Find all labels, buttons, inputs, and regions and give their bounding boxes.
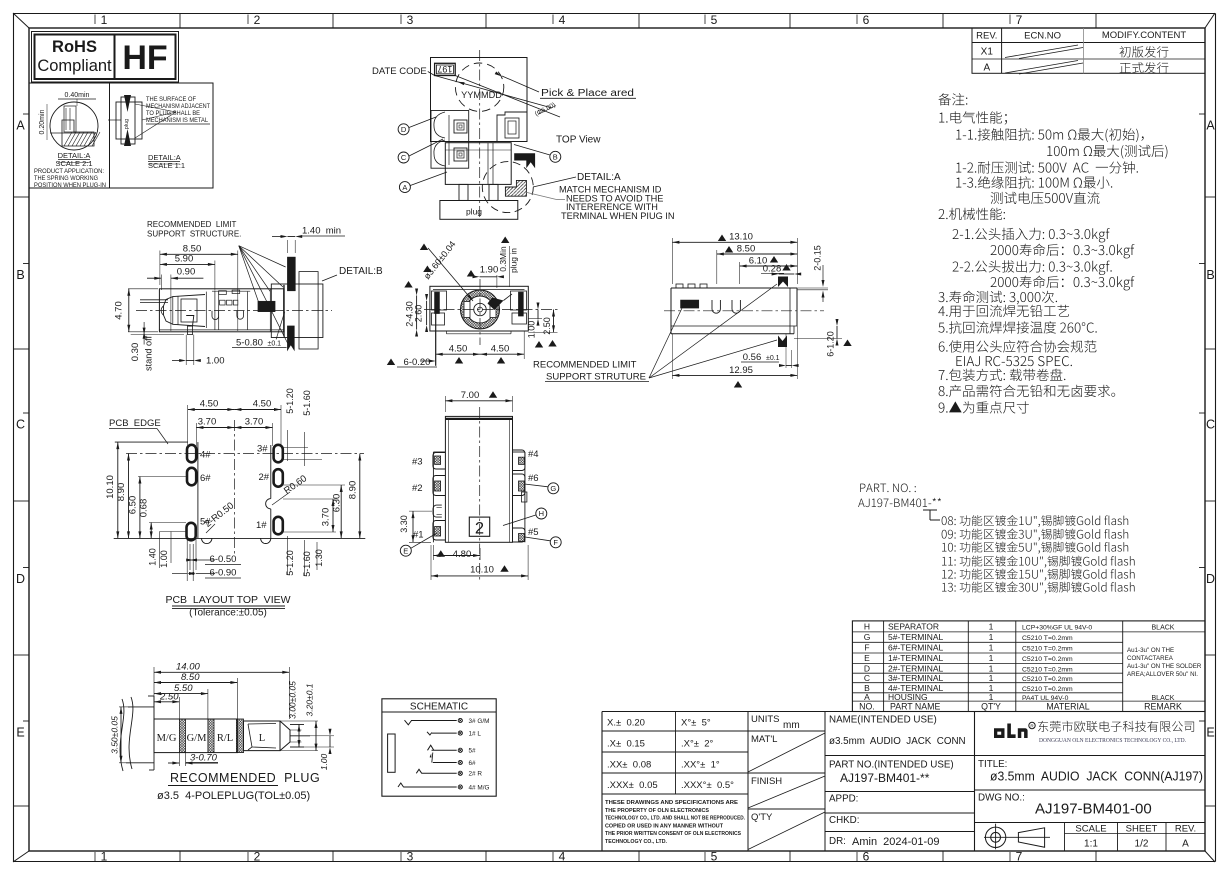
v2 barrel circle hatched ring bbox=[461, 290, 500, 329]
note line 测试电压500V直流 bbox=[991, 192, 1100, 204]
note line 备注: bbox=[939, 93, 968, 105]
svg-text:#3: #3 bbox=[412, 457, 423, 468]
bv body bbox=[445, 416, 512, 542]
svg-text:LCP+30%GF UL 94V-0: LCP+30%GF UL 94V-0 bbox=[1022, 624, 1092, 631]
svg-text:THESE DRAWINGS AND SPECIFICATI: THESE DRAWINGS AND SPECIFICATIONS ARE bbox=[605, 800, 738, 806]
v3 dim 0.28 bbox=[779, 273, 795, 275]
v2 dim 2-4.30 bbox=[435, 310, 437, 366]
svg-text:5.90: 5.90 bbox=[175, 254, 194, 265]
pcb dim verticals left bbox=[117, 442, 119, 538]
grid column ticks and labels bbox=[179, 13, 181, 28]
detail circle left bbox=[50, 102, 98, 150]
dim 3.50 vertical bbox=[120, 707, 122, 763]
svg-text:6#: 6# bbox=[469, 760, 477, 767]
svg-text:.X± 0.15: .X± 0.15 bbox=[607, 739, 645, 750]
svg-text:APPD:: APPD: bbox=[829, 794, 858, 805]
svg-text:4.50: 4.50 bbox=[200, 399, 219, 410]
part option 11: bbox=[942, 556, 1135, 568]
svg-text:1: 1 bbox=[989, 663, 994, 673]
bv circled letters bbox=[548, 483, 559, 494]
schematic wire 4# M/G bbox=[403, 786, 456, 788]
pcb dim 6-0.50 6-0.90 bbox=[186, 538, 188, 581]
v3 centerline bbox=[664, 310, 824, 312]
svg-text:SCALE 2:1: SCALE 2:1 bbox=[55, 159, 92, 168]
svg-text:4.50: 4.50 bbox=[449, 344, 468, 355]
detail A dashed circle bbox=[482, 162, 533, 213]
svg-text:THE SPRING WORKING: THE SPRING WORKING bbox=[34, 175, 98, 182]
scale sheet rev cells bbox=[1064, 823, 1066, 852]
v1 nozzle bbox=[164, 295, 206, 327]
svg-text:D: D bbox=[401, 125, 407, 134]
dims right side 3.00 3.20 bbox=[290, 729, 302, 731]
legs bbox=[459, 184, 468, 200]
v3 hooks bbox=[712, 300, 720, 313]
svg-text:6: 6 bbox=[863, 850, 870, 864]
svg-text:PART NAME: PART NAME bbox=[890, 702, 940, 712]
v1 dim 1.00 bbox=[185, 335, 187, 365]
svg-text:A: A bbox=[864, 692, 870, 702]
svg-text:G: G bbox=[550, 484, 556, 493]
svg-text:ø3.5mm AUDIO JACK CONN(AJ19: ø3.5mm AUDIO JACK CONN(AJ197) bbox=[990, 769, 1203, 784]
svg-text:Au1-3u" ON THE SOLDER: Au1-3u" ON THE SOLDER bbox=[1127, 663, 1202, 670]
svg-text:PART NO.(INTENDED USE): PART NO.(INTENDED USE) bbox=[829, 760, 954, 771]
v1 right panel bbox=[271, 284, 323, 338]
projection symbol bbox=[985, 827, 1005, 847]
svg-text:5-0.80: 5-0.80 bbox=[236, 338, 263, 349]
svg-text:SCALE: SCALE bbox=[1075, 824, 1106, 835]
svg-text:TERMINAL WHEN PIUG IN: TERMINAL WHEN PIUG IN bbox=[561, 211, 675, 221]
svg-text:DONGGUAN OLN ELECTRONICS TECHN: DONGGUAN OLN ELECTRONICS TECHNOLOGY CO.,… bbox=[1039, 737, 1186, 744]
v1 wire stubs bbox=[140, 299, 168, 301]
svg-text:HOUSING: HOUSING bbox=[888, 692, 928, 702]
v2 black pointer bbox=[488, 298, 504, 311]
svg-text:NO.: NO. bbox=[859, 702, 875, 712]
schematic wire 2# R bbox=[422, 772, 457, 774]
bv left side plate bbox=[432, 452, 434, 542]
svg-text:6#: 6# bbox=[200, 473, 211, 484]
svg-text:3.70: 3.70 bbox=[245, 417, 264, 428]
svg-text:CHKD:: CHKD: bbox=[829, 815, 859, 826]
svg-text:3.70: 3.70 bbox=[321, 508, 332, 527]
svg-text:C: C bbox=[401, 153, 407, 162]
svg-text:THE SURFACE OF: THE SURFACE OF bbox=[146, 96, 196, 103]
svg-text:5-1.60: 5-1.60 bbox=[302, 551, 312, 577]
svg-text:4: 4 bbox=[559, 850, 566, 864]
schematic wire 5# bbox=[432, 749, 457, 751]
plug dims bbox=[153, 667, 155, 719]
svg-text:SHEET: SHEET bbox=[1126, 824, 1158, 835]
svg-text:Compliant: Compliant bbox=[37, 57, 112, 75]
svg-text:0.40min: 0.40min bbox=[65, 92, 90, 99]
svg-text:E: E bbox=[1206, 726, 1214, 740]
svg-text:TO PLUG SHALL BE: TO PLUG SHALL BE bbox=[146, 110, 200, 117]
svg-text:4# M/G: 4# M/G bbox=[469, 784, 490, 791]
v2 centerlines bbox=[479, 279, 481, 345]
svg-text:RECOMMENDED LIMIT: RECOMMENDED LIMIT bbox=[533, 360, 637, 371]
svg-text:E: E bbox=[16, 726, 24, 740]
part option 09: bbox=[942, 529, 1129, 541]
svg-text:10.10: 10.10 bbox=[105, 475, 116, 499]
pcb dim 4.50 4.50 top bbox=[187, 405, 189, 446]
svg-text:3# G/M: 3# G/M bbox=[469, 718, 490, 725]
v3 black insert bbox=[681, 300, 699, 308]
central lower body bbox=[445, 143, 511, 185]
svg-text:plug: plug bbox=[124, 119, 130, 129]
svg-text:0.56: 0.56 bbox=[743, 352, 762, 363]
svg-text:8.50: 8.50 bbox=[737, 244, 756, 255]
svg-text:stand off: stand off bbox=[144, 336, 154, 372]
hatched mechanism id block bbox=[505, 180, 526, 196]
svg-text:ø3.5mm AUDIO JACK CONN: ø3.5mm AUDIO JACK CONN bbox=[829, 736, 966, 747]
svg-text:4: 4 bbox=[559, 13, 566, 27]
v3 dim 8.50 bbox=[716, 250, 718, 284]
svg-text:THE PRIOR WRITTEN CONSENT OF O: THE PRIOR WRITTEN CONSENT OF OLN ELECTRO… bbox=[605, 831, 741, 837]
svg-text:A: A bbox=[16, 119, 25, 133]
svg-text:3-0.70: 3-0.70 bbox=[190, 753, 218, 764]
svg-text:1/2: 1/2 bbox=[1135, 839, 1149, 850]
svg-text:1# L: 1# L bbox=[469, 730, 482, 737]
svg-text:2#-TERMINAL: 2#-TERMINAL bbox=[888, 663, 944, 673]
svg-text:DATE CODE: DATE CODE bbox=[372, 66, 427, 77]
note line 3.寿命测试: 3,00 bbox=[938, 291, 1057, 305]
pcb outline verticals bbox=[197, 442, 199, 538]
bv centerline bbox=[479, 407, 481, 580]
circled letter C bbox=[398, 152, 409, 163]
svg-text:SUPPORT STRUCTURE.: SUPPORT STRUCTURE. bbox=[147, 230, 241, 239]
v2 dim 6-0.20 bbox=[387, 359, 395, 366]
v3 dim 13.10 bbox=[671, 238, 673, 284]
svg-text:7: 7 bbox=[1016, 850, 1023, 864]
svg-text:C5210 T=0.2mm: C5210 T=0.2mm bbox=[1022, 656, 1073, 663]
svg-text:C5210 T=0.2mm: C5210 T=0.2mm bbox=[1022, 646, 1073, 653]
svg-text:DETAIL:B: DETAIL:B bbox=[339, 266, 383, 277]
v1 leg bbox=[186, 316, 194, 327]
svg-text:COPIED OR USED IN ANY MANNER W: COPIED OR USED IN ANY MANNER WITHOUT bbox=[605, 823, 724, 829]
drawing sheet frame bbox=[14, 13, 1216, 15]
plug box bbox=[440, 201, 518, 220]
note line 2-1.公头插入力: 0 bbox=[953, 228, 1110, 243]
svg-text:ø3.5 4-POLEPLUG(TOL±0.05): ø3.5 4-POLEPLUG(TOL±0.05) bbox=[157, 790, 310, 802]
left terminal details bbox=[431, 111, 469, 169]
v1 dim 0.90 bbox=[160, 275, 162, 291]
v1 black insert bbox=[258, 301, 275, 312]
ecn blank diagonal marks bbox=[1005, 45, 1078, 58]
v2 dim 4.50 4.50 bbox=[436, 353, 480, 355]
svg-text:RECOMMENDED LIMIT: RECOMMENDED LIMIT bbox=[147, 220, 236, 229]
note line 9.▲为重点尺寸 bbox=[939, 401, 1029, 413]
RoHS HF logo box bbox=[32, 32, 179, 83]
note line 1-2.耐压测试: 50 bbox=[956, 161, 1138, 173]
units material finish qty column bbox=[747, 712, 749, 852]
svg-text:NAME(INTENDED USE): NAME(INTENDED USE) bbox=[829, 715, 937, 726]
svg-text:DR:: DR: bbox=[829, 836, 846, 847]
svg-text:REV.: REV. bbox=[1175, 824, 1196, 835]
plug tip cone bbox=[280, 721, 290, 751]
pcb dim verticals right bbox=[359, 454, 361, 539]
svg-text:mm: mm bbox=[783, 720, 800, 731]
svg-text:E: E bbox=[403, 546, 408, 555]
svg-text:1#: 1# bbox=[256, 520, 267, 531]
svg-text:5: 5 bbox=[711, 13, 718, 27]
circled letter A bbox=[399, 182, 410, 193]
svg-text:R/L: R/L bbox=[217, 733, 233, 744]
svg-text:2#: 2# bbox=[259, 472, 270, 483]
dim 3-0.70 bbox=[178, 753, 180, 766]
svg-text:6-1.20: 6-1.20 bbox=[826, 331, 836, 357]
svg-text:2.50: 2.50 bbox=[542, 317, 552, 335]
svg-text:C: C bbox=[16, 418, 25, 432]
rev chinese entries bbox=[1120, 46, 1169, 57]
note line 6.使用公头应符合协会规 bbox=[939, 340, 1097, 352]
svg-text:AJ197-BM401-00: AJ197-BM401-00 bbox=[1035, 801, 1152, 818]
svg-text:B: B bbox=[16, 268, 24, 282]
svg-text:4.50: 4.50 bbox=[253, 399, 272, 410]
svg-text:6: 6 bbox=[863, 13, 870, 27]
switch marks bbox=[405, 720, 412, 725]
svg-text:6-0.20: 6-0.20 bbox=[404, 357, 431, 368]
svg-text:X°± 5°: X°± 5° bbox=[681, 718, 711, 729]
svg-text:D: D bbox=[1206, 572, 1215, 586]
svg-text:.X°± 2°: .X°± 2° bbox=[681, 739, 714, 750]
svg-text:3.20±0.1: 3.20±0.1 bbox=[305, 683, 315, 716]
svg-text:TECHNOLOGY CO., LTD. AND SHALL: TECHNOLOGY CO., LTD. AND SHALL NOT BE RE… bbox=[605, 816, 745, 822]
part option 08: bbox=[942, 515, 1129, 527]
note line 2.机械性能: bbox=[939, 208, 1005, 220]
bv left tabs bbox=[433, 453, 446, 470]
svg-text:#2: #2 bbox=[412, 483, 423, 494]
bv dim 4.80 bbox=[437, 550, 445, 557]
svg-text:1.40 min: 1.40 min bbox=[302, 226, 341, 237]
svg-text:8.90: 8.90 bbox=[348, 481, 359, 500]
svg-text:MECHANISM IS METAL: MECHANISM IS METAL bbox=[146, 117, 209, 124]
v1 dim 5.90 bbox=[214, 261, 216, 291]
svg-text:TECHNOLOGY CO., LTD.: TECHNOLOGY CO., LTD. bbox=[605, 839, 667, 845]
svg-text:2-R0.50: 2-R0.50 bbox=[203, 500, 236, 529]
plug body bbox=[154, 719, 237, 753]
dim 0.40min bbox=[58, 98, 96, 100]
svg-text:DETAIL:A: DETAIL:A bbox=[577, 172, 621, 183]
svg-text:B: B bbox=[553, 153, 558, 162]
date code box bbox=[435, 63, 456, 75]
svg-text:3#: 3# bbox=[257, 444, 268, 455]
svg-text:1: 1 bbox=[989, 692, 994, 702]
pad 2# bbox=[274, 469, 283, 487]
v1 central block details bbox=[212, 290, 250, 292]
black flag marker bbox=[514, 153, 535, 168]
v3 black flags bbox=[778, 277, 788, 288]
svg-text:1: 1 bbox=[989, 643, 994, 653]
note line 2000寿命后：0.3~ bbox=[991, 276, 1135, 291]
svg-text:THE PROPERTY OF OLN ELECTRONIC: THE PROPERTY OF OLN ELECTRONICS bbox=[605, 808, 709, 814]
v1 dim 4.70 bbox=[128, 288, 158, 290]
v1 black support bars bbox=[288, 257, 296, 291]
svg-text:5#: 5# bbox=[469, 748, 477, 755]
svg-text:3.30: 3.30 bbox=[399, 515, 409, 533]
pcb dims bottom left bbox=[159, 532, 161, 569]
v2 right terminal blocks bbox=[511, 291, 527, 310]
svg-text:0.90: 0.90 bbox=[177, 267, 196, 278]
svg-text:SEPARATOR: SEPARATOR bbox=[888, 621, 939, 631]
svg-text:3.00±0.05: 3.00±0.05 bbox=[288, 681, 298, 719]
svg-text:MAT'L: MAT'L bbox=[751, 734, 777, 745]
pad 1# bbox=[274, 517, 283, 535]
v2 left terminal blocks bbox=[432, 291, 447, 310]
bv dim 7.00 bbox=[444, 396, 446, 412]
svg-text:#6: #6 bbox=[528, 473, 539, 484]
note line 4.用于回流焊无铅工艺 bbox=[938, 305, 1069, 317]
svg-text:C5210 T=0.2mm: C5210 T=0.2mm bbox=[1022, 686, 1073, 693]
tip end lines bbox=[290, 724, 304, 726]
svg-text:PRODUCT APPLICATION:: PRODUCT APPLICATION: bbox=[34, 168, 104, 175]
plug tip L section bbox=[244, 721, 281, 751]
svg-text:3: 3 bbox=[407, 850, 414, 864]
svg-text:G/M: G/M bbox=[187, 733, 208, 744]
note line 1-1.接触阻抗: 50 bbox=[956, 128, 1143, 142]
svg-text:2.50: 2.50 bbox=[159, 692, 179, 703]
v2 dim 1.00 2.50 right bbox=[528, 318, 542, 320]
svg-text:1#-TERMINAL: 1#-TERMINAL bbox=[888, 653, 944, 663]
svg-text:#1: #1 bbox=[413, 530, 424, 541]
svg-text:5-1.60: 5-1.60 bbox=[302, 390, 312, 416]
top view body bbox=[431, 58, 528, 142]
company logo area bbox=[974, 712, 976, 852]
revision table bbox=[972, 28, 1205, 73]
part option 10: bbox=[942, 542, 1128, 554]
svg-text:6.50: 6.50 bbox=[128, 496, 139, 515]
right step details bbox=[497, 112, 527, 142]
svg-text:2: 2 bbox=[254, 850, 261, 864]
svg-text:1: 1 bbox=[989, 632, 994, 642]
svg-text:.XXX± 0.05: .XXX± 0.05 bbox=[607, 780, 658, 791]
svg-text:Amin 2024-01-09: Amin 2024-01-09 bbox=[852, 836, 939, 848]
svg-text:0.20min: 0.20min bbox=[39, 109, 46, 134]
svg-text:M/G: M/G bbox=[157, 733, 177, 744]
pcb centerline bbox=[233, 420, 235, 554]
svg-text:8.90: 8.90 bbox=[116, 483, 127, 502]
part option 13: bbox=[942, 582, 1135, 594]
svg-text:C5210 T=0.2mm: C5210 T=0.2mm bbox=[1022, 676, 1073, 683]
note line 1.电气性能； bbox=[939, 111, 1007, 124]
svg-text:.XX°± 1°: .XX°± 1° bbox=[681, 760, 720, 771]
bv right side plate bbox=[524, 452, 526, 542]
schematic wire 1# L bbox=[432, 732, 457, 734]
svg-text:1.00: 1.00 bbox=[527, 321, 537, 339]
top view centerline bbox=[479, 50, 481, 218]
svg-text:RoHS: RoHS bbox=[52, 38, 97, 56]
pcb bottom notches bbox=[202, 538, 212, 543]
note line 100m Ω最大(测试后 bbox=[1047, 145, 1167, 159]
svg-text:SCALE 1:1: SCALE 1:1 bbox=[148, 161, 185, 170]
svg-text:YYMMDD: YYMMDD bbox=[461, 90, 502, 100]
svg-text:1.40: 1.40 bbox=[148, 548, 158, 566]
schematic internal bbox=[388, 734, 396, 772]
svg-text:G: G bbox=[864, 632, 871, 642]
svg-text:REMARK: REMARK bbox=[1144, 702, 1182, 712]
svg-text:H: H bbox=[539, 509, 544, 518]
svg-text:SCHEMATIC: SCHEMATIC bbox=[410, 701, 468, 712]
note line 5.抗回流焊焊接温度 2 bbox=[938, 321, 1096, 333]
product application detail box bbox=[29, 83, 213, 188]
v1 centerline bbox=[136, 310, 332, 312]
bv right tabs bbox=[513, 450, 525, 471]
svg-text:1: 1 bbox=[989, 621, 994, 631]
svg-text:12.95: 12.95 bbox=[729, 365, 753, 376]
svg-text:A: A bbox=[402, 183, 407, 192]
svg-text:A: A bbox=[1182, 839, 1189, 850]
svg-text:1.00: 1.00 bbox=[159, 550, 169, 568]
svg-text:FINISH: FINISH bbox=[751, 776, 782, 787]
svg-text:13.10: 13.10 bbox=[729, 232, 753, 243]
svg-text:X.± 0.20: X.± 0.20 bbox=[607, 718, 645, 729]
svg-text:PCB LAYOUT TOP VIEW: PCB LAYOUT TOP VIEW bbox=[165, 594, 290, 606]
svg-text:TOP View: TOP View bbox=[556, 134, 601, 145]
svg-text:5-1.20: 5-1.20 bbox=[285, 550, 295, 576]
v2 contact slots bbox=[464, 302, 470, 318]
svg-text:10.10: 10.10 bbox=[470, 564, 494, 575]
svg-text:±0.1: ±0.1 bbox=[268, 341, 282, 348]
pcb dim 3.70 3.70 top bbox=[195, 423, 197, 446]
note line EIAJ RC-5325 bbox=[956, 356, 1072, 366]
v3 body outline bbox=[671, 287, 797, 289]
svg-text:5-1.20: 5-1.20 bbox=[285, 388, 295, 414]
svg-text:D: D bbox=[864, 663, 870, 673]
svg-text:L: L bbox=[259, 733, 265, 744]
detail drawing right cell bbox=[116, 102, 142, 139]
svg-text:3.70: 3.70 bbox=[198, 417, 217, 428]
pcb edge lines bbox=[115, 441, 188, 443]
yymmdd dashed circle bbox=[455, 63, 503, 111]
svg-text:4#: 4# bbox=[200, 450, 211, 461]
svg-text:2# R: 2# R bbox=[469, 771, 483, 778]
svg-text:B: B bbox=[1206, 268, 1214, 282]
svg-text:REV.: REV. bbox=[976, 31, 997, 42]
svg-text:3.50±0.05: 3.50±0.05 bbox=[110, 716, 120, 754]
svg-text:E: E bbox=[864, 653, 870, 663]
v1 dim 1.40 min bbox=[288, 236, 296, 238]
svg-text:4.50: 4.50 bbox=[491, 344, 510, 355]
v1 dim 0.30 stand off bbox=[143, 332, 146, 339]
svg-text:#5: #5 bbox=[528, 527, 539, 538]
pad 6# bbox=[187, 468, 196, 486]
svg-text:0.30: 0.30 bbox=[130, 343, 141, 362]
note line 8.产品需符合无铅和无卤 bbox=[939, 385, 1116, 397]
svg-text:PCB EDGE: PCB EDGE bbox=[109, 418, 161, 429]
svg-text:4.70: 4.70 bbox=[114, 301, 125, 320]
svg-text:1: 1 bbox=[989, 673, 994, 683]
svg-text:ø3.60±0.04: ø3.60±0.04 bbox=[422, 239, 458, 281]
svg-text:1:1: 1:1 bbox=[1084, 839, 1098, 850]
svg-text:3#-TERMINAL: 3#-TERMINAL bbox=[888, 673, 944, 683]
svg-text:POSITION WHEN PLUG-IN: POSITION WHEN PLUG-IN bbox=[34, 182, 106, 189]
svg-text:A: A bbox=[983, 63, 990, 74]
svg-text:C5210 T=0.2mm: C5210 T=0.2mm bbox=[1022, 666, 1073, 673]
svg-text:#4: #4 bbox=[528, 449, 539, 460]
svg-text:7.00: 7.00 bbox=[461, 390, 480, 401]
svg-text:X1: X1 bbox=[981, 47, 994, 58]
svg-text:1: 1 bbox=[989, 653, 994, 663]
svg-text:MODIFY.CONTENT: MODIFY.CONTENT bbox=[1102, 30, 1186, 41]
svg-text:HF: HF bbox=[122, 39, 167, 77]
svg-text:C: C bbox=[864, 673, 870, 683]
svg-text:AJ197-BM401-**: AJ197-BM401-** bbox=[840, 771, 930, 785]
svg-text:4.80: 4.80 bbox=[453, 549, 472, 560]
tolerance table bbox=[601, 712, 603, 852]
bv left u slot bbox=[433, 505, 442, 517]
note line 2000寿命后：0.3~ bbox=[991, 244, 1135, 259]
svg-text:2: 2 bbox=[254, 13, 261, 27]
svg-text:7: 7 bbox=[1016, 13, 1023, 27]
svg-text:AREA;ALLOVER 50u" NI.: AREA;ALLOVER 50u" NI. bbox=[1127, 671, 1198, 678]
